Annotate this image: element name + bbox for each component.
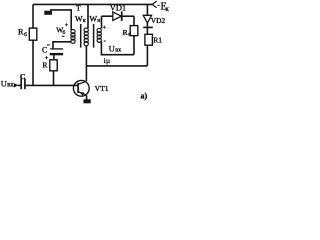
svg-text:W: W bbox=[75, 14, 83, 23]
svg-text:б: б bbox=[63, 29, 66, 36]
svg-text:C: C bbox=[42, 46, 47, 55]
svg-text:C: C bbox=[20, 72, 25, 81]
svg-text:вх: вх bbox=[7, 81, 14, 89]
svg-text:R: R bbox=[18, 28, 24, 37]
svg-text:μ: μ bbox=[106, 56, 110, 65]
svg-text:VD1: VD1 bbox=[110, 3, 126, 12]
svg-text:б: б bbox=[24, 31, 27, 38]
svg-text:н: н bbox=[97, 18, 100, 24]
svg-text:U: U bbox=[1, 79, 7, 88]
svg-text:R1: R1 bbox=[153, 36, 162, 45]
svg-text:н: н bbox=[128, 32, 131, 38]
svg-text:к: к bbox=[83, 18, 86, 24]
svg-text:+: + bbox=[103, 25, 107, 31]
svg-text:W: W bbox=[89, 14, 97, 23]
svg-text:а): а) bbox=[141, 92, 148, 101]
svg-text:VD2: VD2 bbox=[151, 16, 166, 25]
svg-text:T: T bbox=[76, 4, 81, 13]
svg-text:VT1: VT1 bbox=[95, 84, 109, 93]
svg-text:R: R bbox=[43, 60, 48, 69]
svg-text:к: к bbox=[166, 6, 170, 13]
svg-text:вх: вх bbox=[115, 46, 122, 53]
svg-text:+: + bbox=[65, 23, 69, 29]
